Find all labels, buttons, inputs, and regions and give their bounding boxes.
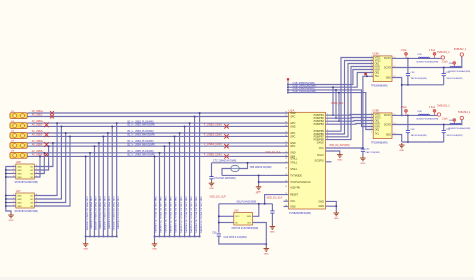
svg-text:NOR: NOR — [375, 126, 380, 128]
wire U27 pin to row via x=65.7 — [34, 133, 65, 203]
svg-text:U30: U30 — [234, 210, 239, 213]
svg-text:B1_I+_USB4_MINUS(WR): B1_I+_USB4_MINUS(WR) — [128, 144, 156, 146]
svg-text:29: 29 — [285, 174, 287, 176]
junction — [218, 216, 220, 218]
svg-text:OC/P2: OC/P2 — [384, 67, 392, 69]
wire cap stem2b B — [443, 133, 445, 142]
svg-text:CAB_USB_D1_PLUS_TM_HB3(WR): CAB_USB_D1_PLUS_TM_HB3(WR) — [194, 197, 197, 233]
ground cap C61 — [360, 156, 366, 161]
svg-text:OC/P1: OC/P1 — [384, 58, 392, 60]
junction — [48, 145, 50, 147]
svg-text:28: 28 — [285, 168, 287, 170]
svg-text:TACK10UB(WR): TACK10UB(WR) — [446, 134, 463, 137]
wire output row1 B — [392, 114, 437, 116]
svg-text:U28: U28 — [16, 160, 21, 164]
junction — [89, 236, 91, 238]
junction — [362, 147, 364, 149]
wire net TSTPLL horizontal — [259, 181, 289, 183]
svg-text:SN74CBTLV3257(WR): SN74CBTLV3257(WR) — [15, 182, 39, 184]
svg-text:F_USB4_D(W): F_USB4_D(W) — [204, 142, 222, 146]
wire osc ground stem — [265, 244, 267, 247]
ground for U28/U27 bus — [8, 213, 14, 218]
svg-text:USB_PWR_D1_PLUS_HB3(WR): USB_PWR_D1_PLUS_HB3(WR) — [90, 197, 92, 230]
junction — [111, 126, 113, 128]
svg-text:1: 1 — [327, 114, 328, 116]
wire bundle B drop CAB_USB_D3_PLUS_TM_HB3(WR) — [174, 136, 176, 236]
svg-text:CAB_USB_D5_PLUS_TM_HB3(WR): CAB_USB_D5_PLUS_TM_HB3(WR) — [154, 197, 157, 233]
junction — [194, 116, 196, 118]
ground cap C57 — [270, 225, 276, 230]
wire net AV_USB1+ row — [27, 112, 288, 114]
junction — [94, 236, 96, 238]
junction — [164, 145, 166, 147]
junction — [85, 236, 87, 238]
svg-text:AV_USB5+: AV_USB5+ — [32, 150, 44, 153]
svg-text:OE1: OE1 — [375, 120, 380, 122]
wire bundle A drop USB_PWR_D1_MINUS_HB3(WR) — [85, 156, 87, 236]
ground oscillator — [264, 247, 270, 252]
wire TSTMODE ground drop — [258, 175, 260, 184]
junction — [174, 236, 176, 238]
wire cap stem1b B — [407, 133, 409, 142]
wire branch to OVRCUR row — [335, 90, 337, 118]
svg-text:OE2: OE2 — [375, 129, 380, 131]
svg-text:7: 7 — [327, 135, 328, 137]
no-ERC marker pair 2 — [44, 122, 49, 127]
ground bundle A — [83, 242, 89, 247]
wire net AV_USB5- row — [27, 155, 288, 157]
svg-text:U29A: U29A — [372, 51, 379, 55]
wire cap C61 to ground — [362, 151, 364, 156]
junction — [98, 236, 100, 238]
svg-text:8: 8 — [327, 138, 328, 140]
wire U1A group2 wire 2 to U29A — [326, 61, 374, 135]
junction — [5, 198, 7, 200]
wire U1A group1 wire 2 to U29B — [326, 117, 374, 120]
svg-text:CAB_USB_D4_PLUS_TM_HB3(WR): CAB_USB_D4_PLUS_TM_HB3(WR) — [164, 197, 167, 233]
svg-text:22: 22 — [285, 141, 287, 143]
svg-text:BLM31P500SAG(WR): BLM31P500SAG(WR) — [449, 127, 471, 130]
no-ERC marker far on F_USB2_D(W) — [224, 124, 228, 128]
svg-text:TACK10UB(WR): TACK10UB(WR) — [411, 134, 428, 137]
svg-text:USB_PWR_D2_PLUS_HB3(WR): USB_PWR_D2_PLUS_HB3(WR) — [99, 197, 101, 230]
svg-text:DN3: DN3 — [449, 120, 454, 122]
svg-text:CAB_USB_D2_MINUS_TM_HB(WR): CAB_USB_D2_MINUS_TM_HB(WR) — [189, 197, 192, 233]
svg-text:B1_I+_USB5_PLUS(WR): B1_I+_USB5_PLUS(WR) — [128, 151, 154, 153]
wire output row2 B — [392, 120, 462, 125]
junction — [335, 89, 337, 91]
wire cap stem2 A — [443, 68, 445, 74]
svg-text:CAP X7R(WR): CAP X7R(WR) — [365, 151, 380, 154]
svg-text:GND: GND — [360, 163, 365, 165]
wire U1A stub pin y=161.8 — [326, 161, 332, 163]
svg-text:GND: GND — [290, 205, 296, 208]
svg-text:AV_USB1-: AV_USB1- — [32, 114, 43, 117]
ground U1A AGND — [337, 153, 343, 158]
svg-text:2: 2 — [371, 59, 372, 61]
svg-text:TACK10UB(WR): TACK10UB(WR) — [446, 77, 463, 80]
svg-text:BLM31P500SAG(WR): BLM31P500SAG(WR) — [417, 118, 439, 121]
svg-text:3: 3 — [13, 201, 14, 203]
junction — [264, 203, 266, 205]
wire left pin stub y=199 — [6, 198, 16, 200]
svg-text:23: 23 — [285, 145, 287, 147]
svg-text:19: 19 — [285, 125, 287, 127]
wire net AV_USB1- row — [27, 116, 288, 118]
svg-text:1: 1 — [13, 194, 14, 196]
junction — [366, 76, 368, 78]
svg-text:GND: GND — [270, 231, 275, 233]
svg-text:12: 12 — [393, 76, 395, 78]
svg-text:TCOPLLHANACLK: TCOPLLHANACLK — [290, 181, 311, 184]
svg-text:GND: GND — [209, 188, 214, 190]
wire U1A GND stub — [284, 206, 289, 208]
svg-text:SN74CBTLV3257(WR): SN74CBTLV3257(WR) — [15, 211, 39, 213]
wire bundle B drop CAB_USB_D4_MINUS_TM_HB(WR) — [169, 143, 171, 237]
junction — [443, 124, 445, 126]
wire bundle A drop USB_PWR_D4_MINUS_HB3(WR) — [111, 126, 113, 236]
connector J14 (USB port 3) — [10, 131, 27, 139]
oscillator U30 — [234, 213, 253, 226]
wire U27 pin to row via x=57.1 — [34, 123, 57, 195]
svg-text:F_USB3_D(W): F_USB3_D(W) — [204, 132, 222, 136]
wire U30 GND riser — [253, 204, 259, 217]
svg-text:5VBUS1_1: 5VBUS1_1 — [437, 51, 450, 54]
junction — [5, 195, 7, 197]
svg-text:DN2: DN2 — [418, 54, 423, 56]
power flag row1-a B — [405, 109, 408, 115]
svg-text:3: 3 — [13, 172, 14, 174]
junction — [179, 236, 181, 238]
wire U28 pin to row via x=52.9 — [34, 143, 53, 167]
svg-text:AV_USB2+: AV_USB2+ — [32, 120, 44, 123]
svg-text:7: 7 — [36, 169, 37, 171]
svg-text:SNL PLHASO(WR): SNL PLHASO(WR) — [237, 201, 257, 204]
svg-text:4: 4 — [13, 176, 14, 178]
svg-text:VDD_D1_3LA: VDD_D1_3LA — [266, 151, 281, 154]
junction — [335, 117, 337, 119]
svg-text:TUSB2046BVF(WR): TUSB2046BVF(WR) — [289, 212, 311, 215]
ground TSTMODE/TSTPLL — [256, 185, 262, 190]
svg-text:GND: GND — [17, 195, 22, 197]
svg-text:1 5pA: 1 5pA — [442, 118, 448, 121]
svg-text:CAB_USB_D1_MINUS_TM_HB(WR): CAB_USB_D1_MINUS_TM_HB(WR) — [199, 197, 202, 233]
svg-text:GND: GND — [318, 200, 324, 203]
wire U1A bottom-right VCC/GND wire — [326, 201, 337, 211]
junction — [287, 89, 289, 91]
wire net AV_USB2+ row — [27, 122, 288, 124]
wire net AV_USB3- row — [27, 135, 288, 137]
svg-text:TVTMODE: TVTMODE — [290, 174, 302, 177]
svg-text:5VBUS4_1: 5VBUS4_1 — [458, 111, 471, 114]
junction — [287, 92, 289, 94]
wire bundle A ground stem — [85, 237, 87, 242]
wire cap C54 to gnd — [211, 179, 213, 181]
svg-text:1: 1 — [371, 56, 372, 58]
wire U27 pin to row via x=61.4 — [34, 126, 61, 199]
connector J15 (USB port 4) — [10, 141, 27, 149]
svg-text:16: 16 — [285, 112, 287, 114]
svg-text:6: 6 — [327, 133, 328, 135]
junction — [407, 115, 409, 117]
wire bundle B ground stem — [154, 237, 156, 242]
svg-text:8: 8 — [36, 194, 37, 196]
wire bundle wire PWRON2 to U29B — [288, 90, 373, 127]
wire net XTAL1 horizontal — [212, 162, 289, 164]
svg-text:GND: GND — [17, 166, 22, 168]
junction — [69, 136, 71, 138]
svg-text:GND: GND — [17, 173, 22, 175]
junction — [169, 236, 171, 238]
junction — [332, 86, 334, 88]
svg-text:GND: GND — [17, 206, 22, 208]
no-ERC marker pair 5 — [44, 152, 49, 157]
wire U28/U27 left ground bus — [6, 167, 16, 214]
svg-text:OC/P2: OC/P2 — [384, 124, 392, 126]
junction — [199, 112, 201, 114]
svg-text:7: 7 — [371, 132, 372, 134]
svg-text:5: 5 — [36, 176, 37, 178]
power switch U29A — [373, 56, 392, 82]
ground bundle B — [152, 242, 158, 247]
wire U29A GND riser down — [363, 76, 373, 148]
svg-text:VCC: VCC — [319, 147, 324, 150]
svg-text:VDD_D3_3LP: VDD_D3_3LP — [210, 195, 227, 199]
capacitor C56 — [217, 234, 221, 236]
svg-text:GND: GND — [264, 253, 269, 255]
svg-text:20: 20 — [285, 132, 287, 134]
svg-text:17: 17 — [285, 115, 287, 117]
svg-text:6: 6 — [371, 128, 372, 130]
wire cap stem1 B — [407, 115, 409, 130]
junction — [184, 236, 186, 238]
wire bundle A drop USB_PWR_D2_MINUS_HB3(WR) — [93, 146, 95, 236]
svg-text:GND: GND — [334, 218, 339, 220]
junction — [52, 142, 54, 144]
junction — [336, 205, 338, 207]
svg-text:U29B: U29B — [372, 108, 379, 112]
svg-text:27: 27 — [285, 161, 287, 163]
svg-text:USB_PWR_D1_MINUS_HB3(WR): USB_PWR_D1_MINUS_HB3(WR) — [85, 197, 87, 231]
svg-text:CFPS73 24.576MHZ(WR): CFPS73 24.576MHZ(WR) — [232, 228, 259, 230]
wire U1A VCC stub — [284, 200, 289, 202]
wire net AV_USB3+ row — [27, 132, 288, 134]
svg-text:DN3: DN3 — [449, 63, 454, 65]
svg-text:ACBYPB: ACBYPB — [290, 186, 300, 189]
svg-text:1 5pA: 1 5pA — [429, 49, 435, 52]
wire U1A group2 wire 4 to U29A — [326, 67, 374, 140]
port 5VBUS4_1 — [460, 116, 463, 119]
junction — [258, 203, 260, 205]
svg-text:USB_PWR_D3_MINUS_HB3(WR): USB_PWR_D3_MINUS_HB3(WR) — [103, 197, 105, 231]
wire bundle wire OVRCUR1 to U29A — [288, 73, 373, 88]
no-ERC marker row 1 — [50, 111, 54, 115]
junction — [5, 173, 7, 175]
wire crystal right terminal wire — [239, 163, 247, 169]
svg-text:GPC: GPC — [290, 145, 295, 148]
svg-text:2: 2 — [13, 169, 14, 171]
svg-text:34: 34 — [285, 205, 287, 207]
junction — [89, 152, 91, 154]
port 5VBUS2_1 — [460, 53, 463, 56]
svg-text:GND: GND — [17, 199, 22, 201]
wire bundle B drop CAB_USB_D4_PLUS_TM_HB3(WR) — [164, 146, 166, 236]
power flag row2 A — [453, 62, 456, 68]
junction — [159, 236, 161, 238]
junction — [218, 222, 220, 224]
svg-text:GND: GND — [318, 205, 324, 208]
no-ERC marker far on F_USB5_D(W) — [224, 154, 228, 158]
power flag row2 B — [453, 119, 456, 125]
svg-text:GND: GND — [386, 134, 391, 136]
svg-text:AV_USB3-: AV_USB3- — [32, 134, 43, 137]
svg-text:SCOPIO: SCOPIO — [314, 159, 323, 162]
wire U28 pin to row via x=40.0 — [34, 156, 40, 177]
wire net AV_USB4- row — [27, 145, 288, 147]
wire U28 pin to row via x=48.6 — [34, 146, 48, 170]
wire cap stem2 B — [443, 125, 445, 131]
junction — [443, 67, 445, 69]
wire bundle wire OVRCUR2 to U29B — [288, 93, 373, 130]
svg-text:6: 6 — [36, 201, 37, 203]
wire U28 pin to row via x=44.3 — [34, 153, 44, 174]
wire U1A group2 wire 1 to U29A — [326, 58, 374, 132]
svg-text:CTC 12MHZ NAT(WR): CTC 12MHZ NAT(WR) — [213, 160, 237, 163]
wire net AV_USB5+ row — [27, 152, 288, 154]
svg-text:5: 5 — [327, 130, 328, 132]
junction — [179, 132, 181, 134]
svg-text:AV_USB4-: AV_USB4- — [32, 143, 43, 146]
svg-text:XCLKI: XCLKI — [317, 154, 324, 157]
svg-text:AV_USB5-: AV_USB5- — [32, 154, 43, 157]
svg-text:1 5pA: 1 5pA — [401, 49, 407, 52]
junction — [407, 84, 409, 86]
junction — [44, 152, 46, 154]
wire cap C57 to ground — [271, 213, 273, 224]
ground U1A bottom right — [334, 211, 340, 216]
wire U30 OUT drop — [253, 223, 267, 245]
wire bundle A drop USB_PWR_D1_PLUS_HB3(WR) — [89, 153, 91, 237]
svg-text:21: 21 — [285, 135, 287, 137]
ground U29B bus — [399, 143, 405, 148]
no-ERC marker far on F_USB3_D(W) — [224, 134, 228, 138]
junction — [401, 115, 403, 117]
svg-text:CAB_USB_D4_MINUS_TM_HB(WR): CAB_USB_D4_MINUS_TM_HB(WR) — [169, 197, 172, 233]
wire U1A bottom-right GND wire — [326, 205, 337, 207]
svg-text:4: 4 — [371, 65, 372, 67]
wire osc bottom bus — [219, 236, 266, 244]
junction — [266, 243, 268, 245]
junction — [61, 126, 63, 128]
wire bundle wire PWRON1 to U29A — [288, 70, 373, 85]
svg-text:GND: GND — [17, 170, 22, 172]
svg-text:2: 2 — [371, 116, 372, 118]
wire bundle B drop CAB_USB_D2_MINUS_TM_HB(WR) — [189, 123, 191, 236]
svg-text:6: 6 — [36, 172, 37, 174]
svg-text:7: 7 — [36, 198, 37, 200]
svg-text:NOR: NOR — [375, 66, 380, 68]
svg-text:USB_PWR_D3_PLUS_HB3(WR): USB_PWR_D3_PLUS_HB3(WR) — [108, 197, 110, 230]
svg-text:F_USB5_D(W): F_USB5_D(W) — [204, 152, 222, 156]
svg-text:USB_PWR_D4_PLUS_HB3(WR): USB_PWR_D4_PLUS_HB3(WR) — [116, 197, 118, 230]
junction — [407, 58, 409, 60]
svg-text:CAB_USB_D3_PLUS_TM_HB3(WR): CAB_USB_D3_PLUS_TM_HB3(WR) — [174, 197, 177, 233]
connector J13 (USB port 2) — [10, 121, 27, 129]
svg-text:GANG: GANG — [317, 141, 324, 144]
svg-text:5: 5 — [371, 125, 372, 127]
svg-text:GND: GND — [290, 125, 296, 128]
svg-text:AV_USB2-: AV_USB2- — [32, 124, 43, 127]
junction — [338, 120, 340, 122]
svg-text:5VBUS3_1: 5VBUS3_1 — [437, 105, 450, 108]
svg-text:13: 13 — [393, 66, 395, 68]
svg-text:3: 3 — [371, 62, 372, 64]
junction — [116, 122, 118, 124]
svg-text:VTD1: VTD1 — [375, 114, 382, 116]
svg-text:XTAL1: XTAL1 — [290, 162, 298, 165]
svg-text:STALL: STALL — [290, 158, 298, 161]
svg-text:5VBUS2_1: 5VBUS2_1 — [454, 48, 467, 51]
junction — [164, 236, 166, 238]
svg-text:7: 7 — [371, 75, 372, 77]
junction — [287, 86, 289, 88]
svg-text:GND: GND — [386, 77, 391, 79]
no-ERC marker row 2 — [50, 115, 54, 119]
wire bundle A bottom bus — [86, 236, 117, 238]
svg-text:33: 33 — [285, 200, 287, 202]
svg-text:F_USB2_D(W): F_USB2_D(W) — [204, 122, 222, 126]
svg-text:3: 3 — [371, 119, 372, 121]
wire branch to PWRON2 row — [338, 93, 340, 122]
svg-text:1 5pA: 1 5pA — [401, 106, 407, 109]
junction — [65, 132, 67, 134]
svg-text:USB_PWR_D2_MINUS_HB3(WR): USB_PWR_D2_MINUS_HB3(WR) — [94, 197, 96, 231]
svg-text:24: 24 — [285, 151, 287, 153]
svg-text:2: 2 — [13, 198, 14, 200]
wire oscillator VDD top wire — [219, 203, 273, 205]
junction — [5, 176, 7, 178]
wire U1A pin wire to oscillator rail — [265, 195, 289, 204]
connector J16 (USB port 5) — [10, 151, 27, 159]
no-ERC marker far on F_USB4_D(W) — [224, 144, 228, 148]
svg-text:2: 2 — [327, 117, 328, 119]
junction — [338, 92, 340, 94]
wire bundle A drop USB_PWR_D3_MINUS_HB3(WR) — [102, 136, 104, 236]
svg-text:STALL: STALL — [290, 168, 298, 171]
junction — [258, 181, 260, 183]
svg-text:26: 26 — [285, 157, 287, 159]
svg-text:CAB_USB_D3_MINUS_TM_HB(WR): CAB_USB_D3_MINUS_TM_HB(WR) — [179, 197, 182, 233]
wire bottom bus B — [402, 141, 444, 143]
svg-text:GND: GND — [17, 202, 22, 204]
wire bottom bus A — [402, 84, 444, 86]
power flag row1-b B — [433, 109, 436, 115]
svg-text:USB_PWR_D4_MINUS_HB3(WR): USB_PWR_D4_MINUS_HB3(WR) — [112, 197, 114, 231]
junction — [332, 114, 334, 116]
wire cap stem2b A — [443, 76, 445, 85]
wire net TSTMODE horizontal — [222, 174, 289, 176]
port 5VBUS1_1 — [441, 56, 444, 59]
svg-text:GND: GND — [337, 159, 342, 161]
svg-text:3: 3 — [327, 120, 328, 122]
svg-text:GPC: GPC — [290, 135, 295, 138]
junction — [85, 156, 87, 158]
svg-text:TM5 12MHZ NX(WR): TM5 12MHZ NX(WR) — [250, 167, 272, 169]
wire bundle B bottom bus — [155, 236, 200, 238]
junction — [287, 84, 289, 86]
svg-text:POB/PB4: POB/PB4 — [314, 123, 325, 126]
wire left pin stub y=195.5 — [6, 195, 16, 197]
